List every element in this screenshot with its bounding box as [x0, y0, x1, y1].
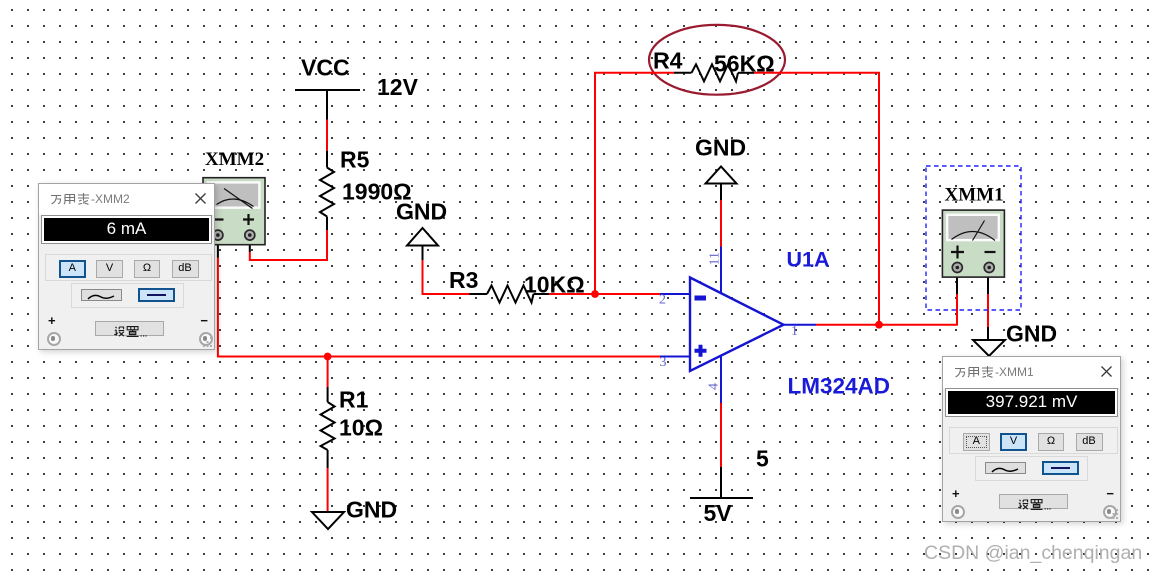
svg-text:CSDN @ian_chenqingan: CSDN @ian_chenqingan — [924, 542, 1142, 564]
ground symbol above R3 — [407, 228, 438, 246]
resistor R3 — [470, 286, 550, 303]
XMM2 dialog title bar — [39, 184, 214, 215]
node junction on pin3 net at R1 — [324, 353, 332, 361]
svg-text:VCC: VCC — [301, 55, 350, 81]
button Ohm — [134, 260, 160, 278]
svg-text:LM324AD: LM324AD — [788, 374, 891, 399]
wire ground to pin 11 — [720, 200, 722, 247]
svg-text:4: 4 — [707, 383, 722, 390]
settings button — [999, 494, 1068, 509]
VCC power symbol — [295, 90, 360, 120]
ground symbol above op-amp pin 11 — [706, 167, 737, 184]
button V selected — [1000, 433, 1027, 451]
button A with focus — [963, 433, 990, 451]
XMM1 dialog title bar — [943, 357, 1120, 388]
annotation ellipse around R4 — [649, 25, 785, 95]
ground symbol below XMM1 — [973, 340, 1005, 356]
svg-text:GND: GND — [346, 497, 397, 523]
button V — [96, 260, 123, 278]
5V supply symbol — [690, 467, 753, 498]
svg-text:10KΩ: 10KΩ — [524, 272, 585, 298]
svg-text:XMM2: XMM2 — [205, 149, 264, 170]
settings button — [95, 321, 164, 336]
wire R1 to ground — [327, 468, 329, 511]
XMM1 dialog title text — [954, 365, 1034, 379]
resistor R5 — [320, 151, 334, 230]
wire XMM2 minus terminal down and to op-amp pin3 — [217, 240, 219, 258]
op-amp U1A triangle — [690, 278, 784, 372]
plus terminal label — [952, 486, 960, 501]
multimeter XMM2 icon — [203, 178, 265, 245]
svg-text:12V: 12V — [377, 74, 419, 100]
display 397.921 mV — [946, 389, 1117, 416]
multimeter XMM1 icon — [942, 210, 1004, 277]
wire XMM1 minus to ground — [987, 273, 989, 294]
ground symbol below R1 — [312, 512, 344, 529]
button dB — [172, 260, 199, 278]
dialog terminals — [951, 505, 965, 519]
selection box around XMM1 — [926, 166, 1021, 310]
node junction feedback/pin2 — [591, 290, 599, 298]
button DC selected — [1042, 461, 1079, 475]
wire pin4 to 5V supply — [720, 403, 722, 467]
svg-text:R5: R5 — [340, 147, 370, 173]
close button — [195, 193, 206, 204]
svg-text:5: 5 — [756, 446, 769, 472]
svg-text:56KΩ: 56KΩ — [714, 51, 775, 77]
svg-text:U1A: U1A — [787, 248, 830, 272]
multimeter dialog XMM1 — [942, 356, 1121, 522]
svg-text:R1: R1 — [339, 387, 369, 413]
button dB — [1076, 433, 1103, 451]
close button — [1101, 366, 1112, 377]
svg-text:2: 2 — [659, 293, 666, 308]
XMM2 waveform group box — [71, 283, 184, 308]
wire R5 to XMM2 plus terminal — [250, 230, 327, 260]
svg-text:10Ω: 10Ω — [339, 415, 383, 441]
button A selected — [59, 260, 86, 278]
resistor R4 — [674, 64, 754, 81]
wire VCC to R5 (red) — [326, 120, 328, 152]
plus terminal label — [48, 313, 56, 328]
wire feedback up and to R4 — [595, 73, 674, 294]
svg-text:11: 11 — [708, 252, 723, 265]
resistor R1 — [321, 387, 335, 468]
display 6 mA — [42, 216, 211, 243]
XMM1 waveform group box — [975, 456, 1088, 481]
wire R3 to op-amp pin2 — [549, 293, 660, 295]
svg-text:R4: R4 — [653, 48, 683, 74]
node junction output — [875, 321, 883, 329]
wire R4 down to output node — [754, 73, 879, 325]
wire junction to R1 — [327, 357, 329, 388]
svg-text:5V: 5V — [704, 500, 733, 526]
XMM2 dialog title text — [50, 192, 130, 206]
svg-text:3: 3 — [660, 355, 667, 370]
svg-text:1: 1 — [791, 324, 798, 339]
svg-text:XMM1: XMM1 — [945, 185, 1004, 206]
wire op-amp output to XMM1 — [816, 294, 957, 325]
minus terminal label — [200, 313, 208, 328]
dialog terminals — [47, 332, 61, 346]
minus terminal label — [1106, 486, 1114, 501]
resize grip — [203, 337, 213, 348]
resize grip — [1109, 509, 1119, 520]
op-amp plus input marking — [695, 345, 707, 357]
op-amp minus input marking — [695, 296, 707, 301]
XMM2 mode group box — [45, 254, 212, 281]
XMM1 mode group box — [949, 427, 1118, 454]
op-amp U1A pins (blue) — [660, 247, 816, 404]
button AC (sine) — [81, 289, 122, 302]
button Ohm — [1038, 433, 1064, 451]
svg-text:GND: GND — [1006, 321, 1057, 347]
svg-text:R3: R3 — [449, 267, 478, 293]
multimeter dialog XMM2 — [38, 183, 215, 350]
svg-text:GND: GND — [396, 199, 447, 225]
wire ground to R3 — [423, 260, 470, 294]
button AC (sine) — [985, 462, 1026, 475]
svg-text:GND: GND — [695, 135, 746, 161]
button DC selected — [138, 288, 175, 302]
